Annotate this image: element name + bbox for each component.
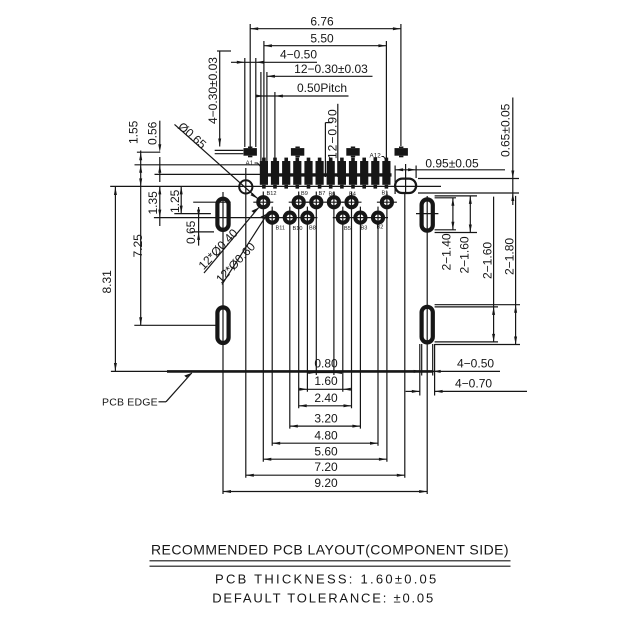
svg-text:3.20: 3.20 (314, 411, 338, 425)
svg-text:8.31: 8.31 (100, 270, 114, 294)
dimension 5.50 line (264, 41, 387, 161)
svg-text:4.80: 4.80 (314, 428, 338, 442)
svg-text:0.56: 0.56 (146, 121, 160, 145)
through holes top row B12 B9 B7 B6 B4 B1 (258, 197, 392, 207)
svg-text:2−1.40: 2−1.40 (439, 233, 453, 270)
svg-text:5.50: 5.50 (310, 32, 334, 46)
leader 12*Ø0.40 (204, 208, 259, 273)
dimension 12-0.30±0.03 line (261, 72, 373, 161)
svg-text:4−0.50: 4−0.50 (457, 356, 494, 370)
svg-text:0.65±0.05: 0.65±0.05 (499, 103, 513, 157)
svg-text:B7: B7 (319, 191, 326, 197)
shield solder pad 3 (346, 147, 359, 158)
dimension 0.95±0.05 line (395, 166, 505, 195)
wire housing mid line thin (155, 173, 261, 175)
dimension 12-0.90 leader lines (325, 104, 337, 177)
svg-text:B4: B4 (349, 192, 356, 198)
leader 12*Ø0.60 (222, 213, 268, 284)
shield solder pad 4 (395, 147, 408, 158)
dimension 4-0.50 line (231, 58, 317, 147)
dimension 1.25 column (180, 186, 183, 213)
svg-text:A12: A12 (370, 153, 382, 160)
svg-text:1.25: 1.25 (168, 189, 182, 213)
mounting slot right lower (422, 307, 433, 343)
svg-text:2.40: 2.40 (314, 391, 338, 405)
svg-text:B3: B3 (361, 226, 368, 232)
svg-text:B2: B2 (377, 225, 384, 231)
svg-text:1.55: 1.55 (127, 120, 141, 144)
wire shield pad leader upper (215, 149, 244, 151)
dimension 0.50Pitch line (256, 92, 349, 161)
through holes bottom row B11 B10 B8 B5 B3 B2 (267, 213, 383, 223)
title RECOMMENDED PCB LAYOUT(COMPONENT SIDE) (150, 542, 511, 567)
dimension 6.76 line (250, 24, 401, 149)
panel hole left (239, 168, 252, 194)
svg-text:B9: B9 (301, 191, 308, 197)
shield solder pad 1 (244, 147, 257, 158)
dimension 2-1.80 column (435, 196, 520, 345)
svg-text:B12: B12 (267, 191, 277, 197)
mounting slot left lower (217, 307, 228, 343)
svg-text:12−0.90: 12−0.90 (326, 108, 340, 159)
svg-text:B6: B6 (329, 192, 336, 198)
svg-text:2−1.80: 2−1.80 (502, 238, 516, 275)
dimension 4-0.70 line (406, 344, 527, 396)
dimension 3.20 line (290, 425, 361, 428)
svg-text:PCB EDGE: PCB EDGE (102, 397, 158, 409)
dimension 4-0.30±0.03 leader (vertical) (217, 51, 231, 147)
dimension 8.31 column (114, 187, 117, 371)
SMT pad row A1-A12 (260, 158, 391, 189)
svg-text:0.65: 0.65 (184, 220, 198, 244)
svg-text:1.35: 1.35 (146, 191, 160, 215)
dimension 2-1.40 column (435, 198, 456, 230)
dimension 2.40 line (299, 404, 352, 407)
leader Ø0.65 (175, 124, 258, 198)
wire top hole row line through left slot (193, 201, 231, 203)
extension lines hole columns down (223, 192, 427, 495)
svg-text:6.76: 6.76 (310, 15, 334, 29)
dimension 4-0.50 line (410, 344, 500, 376)
dimension 5.60 line (263, 458, 387, 461)
through holes top row crosshairs (253, 201, 397, 203)
dimension 0.65±0.05 column (418, 98, 519, 206)
svg-text:7.25: 7.25 (131, 234, 145, 258)
svg-text:B11: B11 (276, 226, 286, 232)
svg-text:B1: B1 (382, 191, 389, 197)
svg-text:B10: B10 (293, 226, 303, 232)
svg-text:7.20: 7.20 (314, 460, 338, 474)
dimension 9.20 line (223, 490, 427, 493)
dimension 7.20 line (246, 474, 405, 477)
shield solder pad 2 (291, 147, 304, 158)
dimension 2-1.60 column lower (435, 197, 498, 342)
wire oval center tick left upper (174, 213, 211, 215)
svg-text:4−0.70: 4−0.70 (455, 376, 492, 390)
wire 7.25 bottom reference line (134, 324, 216, 326)
panel oval right (395, 164, 416, 193)
svg-text:2−1.60: 2−1.60 (480, 242, 494, 279)
svg-text:4−0.30±0.03: 4−0.30±0.03 (206, 57, 220, 124)
pcb edge extension thin left (111, 370, 167, 372)
mounting slot left upper (217, 199, 228, 230)
pcb edge thick line (167, 370, 434, 373)
svg-text:0.95±0.05: 0.95±0.05 (425, 157, 479, 171)
svg-text:B8: B8 (309, 226, 316, 232)
svg-text:12−0.30±0.03: 12−0.30±0.03 (294, 62, 368, 76)
wire housing top line (135, 164, 261, 166)
mounting slot right upper (416, 199, 438, 230)
svg-text:0.80: 0.80 (314, 357, 338, 371)
wire center line through panel holes (110, 185, 441, 187)
svg-text:RECOMMENDED PCB LAYOUT(COMPO: RECOMMENDED PCB LAYOUT(COMPONENT SIDE) (151, 542, 509, 558)
svg-text:4−0.50: 4−0.50 (280, 48, 317, 62)
svg-text:PCB THICKNESS: 1.60±0.05: PCB THICKNESS: 1.60±0.05 (215, 572, 438, 587)
svg-text:9.20: 9.20 (314, 476, 338, 490)
svg-text:0.50Pitch: 0.50Pitch (297, 81, 347, 95)
dimension 0.80 line (308, 371, 342, 374)
wire shield pad center line (137, 151, 160, 153)
svg-text:1.60: 1.60 (314, 374, 338, 388)
wire shield pad leader lower (215, 153, 244, 155)
svg-text:2−1.60: 2−1.60 (457, 236, 471, 273)
wire bottom hole row center line (154, 217, 264, 219)
through holes bottom row crosshairs (262, 217, 388, 219)
dimension 0.56 and 1.35 column (158, 121, 161, 226)
svg-text:B5: B5 (344, 226, 351, 232)
dimension 2-1.60 column upper (435, 196, 477, 233)
svg-text:DEFAULT TOLERANCE: ±0.05: DEFAULT TOLERANCE: ±0.05 (212, 590, 435, 605)
leader PCB EDGE (159, 373, 192, 402)
svg-text:5.60: 5.60 (314, 444, 338, 458)
dimension 4.80 line (272, 442, 378, 445)
dimension 1.55 and 7.25 column (139, 151, 142, 326)
dimension 0.65 column (192, 207, 215, 246)
dimension 1.60 line (299, 388, 351, 391)
wire housing mid band thick (260, 173, 392, 176)
svg-text:A1: A1 (246, 160, 254, 167)
